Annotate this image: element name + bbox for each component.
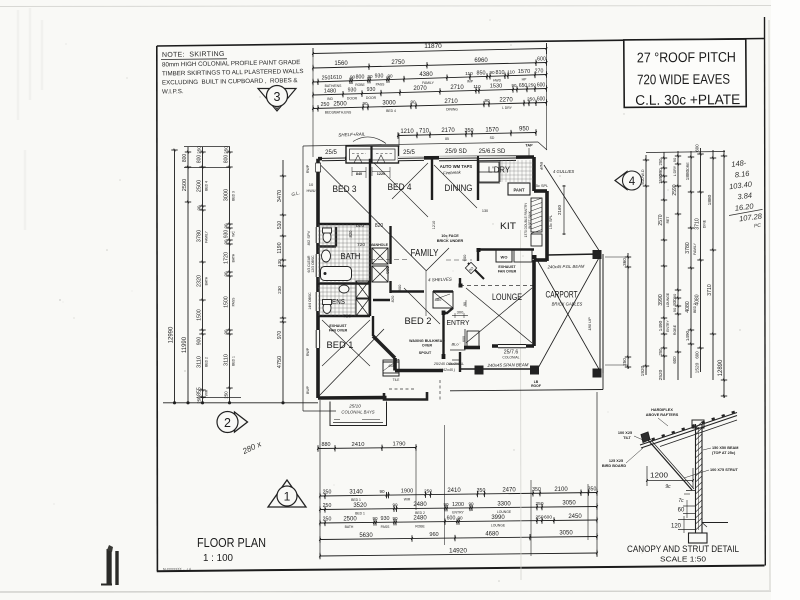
svg-text:250: 250 <box>658 348 663 356</box>
svg-text:3710: 3710 <box>707 284 713 296</box>
svg-text:90: 90 <box>223 223 228 228</box>
svg-text:ROOF: ROOF <box>531 384 541 388</box>
svg-text:90: 90 <box>410 100 416 105</box>
svg-text:CARPORT: CARPORT <box>546 290 578 300</box>
svg-text:BED 1: BED 1 <box>231 356 235 366</box>
svg-text:(TOP AT 25c): (TOP AT 25c) <box>712 451 736 455</box>
svg-text:350: 350 <box>465 128 474 134</box>
svg-text:2: 2 <box>224 416 231 430</box>
svg-text:3470: 3470 <box>277 190 283 202</box>
svg-text:OVER: OVER <box>422 344 433 348</box>
svg-text:800: 800 <box>182 154 188 163</box>
svg-text:11870: 11870 <box>424 43 442 50</box>
svg-text:810: 810 <box>496 70 505 76</box>
svg-text:90: 90 <box>672 307 677 312</box>
svg-text:1920: 1920 <box>640 365 646 376</box>
svg-text:7c: 7c <box>678 498 684 504</box>
svg-text:250: 250 <box>196 396 201 404</box>
svg-text:450: 450 <box>388 364 394 368</box>
svg-text:120: 120 <box>671 524 682 530</box>
svg-text:710: 710 <box>419 129 430 135</box>
svg-text:250: 250 <box>223 146 228 154</box>
svg-text:720 WIDE EAVES: 720 WIDE EAVES <box>637 71 730 88</box>
svg-text:840: 840 <box>356 172 362 176</box>
svg-text:FAMILY: FAMILY <box>204 230 208 243</box>
svg-text:510: 510 <box>277 221 283 230</box>
svg-text:350: 350 <box>588 486 597 492</box>
svg-text:PASS: PASS <box>376 82 386 86</box>
svg-text:600: 600 <box>447 515 456 521</box>
svg-text:930: 930 <box>381 516 390 522</box>
svg-text:90: 90 <box>223 329 228 334</box>
svg-text:3110: 3110 <box>223 354 229 366</box>
svg-text:1210: 1210 <box>432 221 436 229</box>
svg-text:3.84: 3.84 <box>737 191 753 202</box>
svg-text:12890: 12890 <box>718 359 724 376</box>
svg-text:2520: 2520 <box>658 369 664 380</box>
svg-text:SHELF+RAIL: SHELF+RAIL <box>338 132 366 138</box>
svg-text:600: 600 <box>462 336 466 342</box>
svg-text:1590: 1590 <box>658 174 663 184</box>
svg-text:2500: 2500 <box>196 180 202 192</box>
svg-text:930: 930 <box>367 87 376 93</box>
svg-text:350: 350 <box>532 487 541 493</box>
svg-text:148-: 148- <box>731 158 747 169</box>
svg-text:250: 250 <box>528 83 536 88</box>
svg-text:3: 3 <box>274 90 281 104</box>
svg-text:350: 350 <box>477 488 486 494</box>
svg-text:3780: 3780 <box>196 230 202 242</box>
svg-text:600: 600 <box>462 254 467 261</box>
svg-text:Firebreak: Firebreak <box>443 169 462 175</box>
svg-text:650: 650 <box>519 83 528 89</box>
svg-text:90: 90 <box>372 516 378 521</box>
svg-text:1490: 1490 <box>685 330 690 341</box>
svg-text:LOUNGE: LOUNGE <box>666 292 670 307</box>
svg-text:90: 90 <box>223 271 228 276</box>
svg-text:BATH: BATH <box>345 525 354 529</box>
svg-text:FAMILY: FAMILY <box>693 242 697 255</box>
svg-text:600: 600 <box>537 96 546 102</box>
svg-text:ENTRY: ENTRY <box>666 320 670 332</box>
svg-text:1570: 1570 <box>485 127 499 133</box>
svg-text:2750: 2750 <box>391 60 405 66</box>
svg-text:3990: 3990 <box>658 294 664 306</box>
svg-text:100 X25: 100 X25 <box>618 431 632 435</box>
svg-text:11990: 11990 <box>182 336 188 353</box>
svg-text:4380: 4380 <box>419 72 433 78</box>
svg-text:250: 250 <box>196 146 201 154</box>
svg-text:250: 250 <box>323 503 332 509</box>
svg-text:BATH: BATH <box>231 253 235 262</box>
svg-text:FAMILY: FAMILY <box>411 248 439 259</box>
svg-text:BIRD BOARD: BIRD BOARD <box>602 464 627 468</box>
svg-text:90: 90 <box>484 98 490 103</box>
svg-text:1570: 1570 <box>518 69 530 75</box>
svg-text:PC: PC <box>754 223 762 230</box>
svg-text:HP: HP <box>522 78 527 82</box>
svg-text:WC: WC <box>231 231 235 237</box>
svg-text:LOUNGE: LOUNGE <box>491 524 506 528</box>
svg-text:720: 720 <box>357 242 365 248</box>
svg-text:WIR: WIR <box>404 497 411 501</box>
svg-text:720: 720 <box>343 314 351 320</box>
svg-text:100 X75 STRUT: 100 X75 STRUT <box>710 468 739 472</box>
svg-text:2410: 2410 <box>352 442 365 448</box>
svg-text:12990: 12990 <box>168 326 174 343</box>
svg-text:250: 250 <box>323 490 332 496</box>
svg-text:1790: 1790 <box>393 441 406 447</box>
svg-text:MANHOLE: MANHOLE <box>370 243 389 247</box>
svg-text:L'DRY: L'DRY <box>488 166 511 175</box>
svg-text:1 : 100: 1 : 100 <box>203 553 233 564</box>
svg-text:1500: 1500 <box>196 309 202 321</box>
svg-text:14/4 OBSC: 14/4 OBSC <box>308 292 312 310</box>
svg-text:3000: 3000 <box>382 100 396 106</box>
svg-text:BED 2: BED 2 <box>415 511 425 515</box>
svg-text:25/10: 25/10 <box>348 404 361 409</box>
svg-text:820: 820 <box>356 223 365 229</box>
svg-text:3050: 3050 <box>559 531 573 537</box>
svg-text:1720: 1720 <box>223 252 229 264</box>
svg-text:2270: 2270 <box>499 97 513 103</box>
svg-text:BED 4: BED 4 <box>388 182 412 193</box>
svg-text:IMP: IMP <box>467 79 474 83</box>
svg-text:880: 880 <box>322 442 331 448</box>
svg-text:4: 4 <box>629 176 636 188</box>
svg-text:900: 900 <box>196 337 202 346</box>
svg-text:CANOPY AND STRUT DETAIL: CANOPY AND STRUT DETAIL <box>627 544 739 555</box>
svg-text:BED 1: BED 1 <box>327 340 354 351</box>
svg-text:1190: 1190 <box>277 242 283 253</box>
svg-text:10c FACE: 10c FACE <box>441 234 459 238</box>
svg-text:WAXING BULKHEAD: WAXING BULKHEAD <box>409 339 445 343</box>
svg-text:15c SPL: 15c SPL <box>534 184 548 188</box>
svg-text:90: 90 <box>392 502 398 507</box>
svg-text:RWP: RWP <box>306 347 310 356</box>
svg-text:EXHAUST: EXHAUST <box>498 265 516 269</box>
svg-text:BED 3: BED 3 <box>231 191 235 201</box>
svg-text:1530: 1530 <box>490 84 502 90</box>
svg-text:4080: 4080 <box>685 301 691 313</box>
svg-text:880: 880 <box>435 297 442 302</box>
svg-text:90: 90 <box>379 489 385 494</box>
svg-text:PANT: PANT <box>513 188 525 193</box>
svg-text:FLOOR PLAN: FLOOR PLAN <box>197 535 266 550</box>
svg-text:2710: 2710 <box>444 99 458 105</box>
svg-text:BED 1: BED 1 <box>351 498 361 502</box>
svg-text:2710: 2710 <box>450 85 464 91</box>
svg-text:12/3 OBSC: 12/3 OBSC <box>311 255 315 273</box>
svg-text:90: 90 <box>387 73 393 78</box>
svg-text:1560: 1560 <box>334 61 348 67</box>
svg-text:250: 250 <box>527 97 535 103</box>
svg-text:5630: 5630 <box>359 533 373 539</box>
svg-text:PASS: PASS <box>231 297 235 307</box>
svg-text:25/245 COLONIAL: 25/245 COLONIAL <box>433 362 464 366</box>
svg-text:1520: 1520 <box>694 362 700 373</box>
svg-text:1480: 1480 <box>324 88 336 94</box>
svg-text:DINING: DINING <box>446 107 458 111</box>
svg-text:WIR: WIR <box>204 389 208 396</box>
svg-text:2410: 2410 <box>447 488 461 494</box>
svg-text:( 162x45 ): ( 162x45 ) <box>439 368 455 372</box>
svg-text:KIT: KIT <box>500 221 517 231</box>
svg-text:RET: RET <box>666 217 670 224</box>
svg-text:BATH/ENS: BATH/ENS <box>325 84 342 88</box>
svg-text:250: 250 <box>223 391 228 399</box>
svg-text:90: 90 <box>457 515 463 520</box>
svg-text:130: 130 <box>277 259 282 267</box>
svg-text:HARDIFLEX: HARDIFLEX <box>651 408 673 412</box>
svg-text:BED 2: BED 2 <box>405 316 432 327</box>
svg-text:RWP: RWP <box>306 164 310 173</box>
svg-text:2500: 2500 <box>333 102 347 108</box>
svg-text:950: 950 <box>519 127 530 133</box>
svg-text:EXHAUST: EXHAUST <box>329 324 347 328</box>
svg-text:BED3/BATH,ENS: BED3/BATH,ENS <box>325 110 352 114</box>
svg-text:250: 250 <box>321 102 330 108</box>
svg-text:930: 930 <box>223 230 229 239</box>
svg-text:4 SHELVES: 4 SHELVES <box>428 277 452 283</box>
svg-text:ABOVE RAFTERS: ABOVE RAFTERS <box>646 413 679 417</box>
svg-text:BED 3: BED 3 <box>333 184 357 195</box>
svg-text:BWP: BWP <box>306 385 310 393</box>
svg-text:TILT: TILT <box>623 436 631 440</box>
svg-text:85: 85 <box>445 137 449 141</box>
svg-text:25/5: 25/5 <box>403 150 415 156</box>
svg-text:1500: 1500 <box>223 296 229 308</box>
svg-text:970: 970 <box>277 331 283 340</box>
svg-text:850: 850 <box>477 70 486 76</box>
svg-text:600: 600 <box>672 356 677 364</box>
svg-text:3780: 3780 <box>685 242 691 254</box>
svg-text:3000: 3000 <box>223 189 229 201</box>
svg-text:110: 110 <box>465 71 473 77</box>
svg-text:900: 900 <box>385 266 390 274</box>
svg-text:930: 930 <box>375 74 384 80</box>
svg-text:L DRY: L DRY <box>502 106 513 110</box>
svg-text:W.D: W.D <box>641 169 645 176</box>
svg-text:AUTO WM TAPS: AUTO WM TAPS <box>440 164 473 169</box>
svg-text:3140: 3140 <box>349 489 363 495</box>
svg-text:600: 600 <box>694 144 699 152</box>
svg-text:27 °ROOF PITCH: 27 °ROOF PITCH <box>637 49 736 66</box>
svg-text:2590: 2590 <box>672 184 678 195</box>
svg-text:2500: 2500 <box>343 516 357 522</box>
svg-text:180 UP: 180 UP <box>587 317 592 331</box>
svg-text:C.L. 30c +PLATE: C.L. 30c +PLATE <box>635 91 740 108</box>
svg-text:600: 600 <box>694 351 699 359</box>
svg-text:ENS: ENS <box>332 297 345 306</box>
svg-text:9c: 9c <box>665 484 671 490</box>
svg-text:COLONIAL BAYS: COLONIAL BAYS <box>341 410 374 415</box>
svg-text:3300: 3300 <box>497 501 511 507</box>
svg-text:960: 960 <box>429 532 438 538</box>
svg-text:1900: 1900 <box>401 489 413 495</box>
svg-text:130: 130 <box>482 209 488 213</box>
svg-text:90: 90 <box>672 157 677 162</box>
svg-text:300: 300 <box>457 310 464 315</box>
svg-text:800: 800 <box>196 155 202 164</box>
svg-text:BED 4: BED 4 <box>386 109 396 113</box>
svg-text:600: 600 <box>544 514 552 520</box>
svg-text:3050: 3050 <box>562 501 576 507</box>
svg-text:250: 250 <box>323 517 332 523</box>
svg-text:90: 90 <box>362 101 368 106</box>
svg-text:8/2 SPV: 8/2 SPV <box>306 230 311 245</box>
svg-text:10: 10 <box>309 182 314 187</box>
svg-text:250: 250 <box>535 501 543 507</box>
svg-text:ROBE: ROBE <box>415 524 425 528</box>
svg-text:240x45 P.GL BEAM: 240x45 P.GL BEAM <box>547 264 585 270</box>
svg-text:BATH: BATH <box>204 276 208 285</box>
svg-text:COLONIAL: COLONIAL <box>502 356 519 360</box>
svg-text:BED 1: BED 1 <box>355 512 365 516</box>
svg-text:DINE: DINE <box>702 219 706 228</box>
svg-text:1610: 1610 <box>330 75 342 81</box>
svg-text:NOTE: SKIRTING: NOTE: SKIRTING <box>162 51 225 59</box>
svg-text:DOOR: DOOR <box>366 96 377 100</box>
svg-text:110: 110 <box>507 69 515 75</box>
svg-text:RWP: RWP <box>539 162 543 171</box>
svg-text:90: 90 <box>489 70 495 75</box>
svg-text:FAMILY: FAMILY <box>422 81 435 85</box>
svg-text:800: 800 <box>397 284 402 291</box>
svg-text:250: 250 <box>424 488 432 494</box>
svg-text:930: 930 <box>348 88 357 94</box>
svg-text:90: 90 <box>512 83 517 88</box>
svg-text:820: 820 <box>348 230 353 238</box>
svg-text:BLo: BLo <box>451 342 459 347</box>
svg-text:TILE: TILE <box>393 378 400 382</box>
svg-text:4680: 4680 <box>485 531 499 537</box>
svg-text:2480: 2480 <box>413 516 427 522</box>
svg-text:90: 90 <box>672 293 677 298</box>
svg-text:SD: SD <box>490 136 495 140</box>
svg-text:DOOR: DOOR <box>347 96 358 100</box>
svg-text:HWU: HWU <box>306 189 315 193</box>
svg-text:2470: 2470 <box>502 487 516 493</box>
svg-text:60: 60 <box>678 508 685 514</box>
svg-text:SCALE 1:50: SCALE 1:50 <box>660 555 706 564</box>
svg-text:4750: 4750 <box>277 356 283 368</box>
svg-text:90: 90 <box>468 502 474 507</box>
svg-text:90: 90 <box>350 75 356 80</box>
svg-text:2570: 2570 <box>658 214 664 225</box>
svg-text:WO: WO <box>501 255 508 260</box>
svg-text:3520: 3520 <box>353 503 367 509</box>
svg-text:1200: 1200 <box>650 473 668 480</box>
svg-text:240x45 SPAN BEAM: 240x45 SPAN BEAM <box>486 362 528 368</box>
svg-text:3990: 3990 <box>491 515 505 521</box>
svg-text:ROBE: ROBE <box>355 83 365 87</box>
svg-text:250: 250 <box>658 158 663 166</box>
svg-text:90: 90 <box>196 205 201 210</box>
svg-text:DRE: DRE <box>686 162 690 170</box>
svg-text:4 GULLIES: 4 GULLIES <box>553 169 574 174</box>
svg-text:820: 820 <box>375 223 384 229</box>
svg-text:150 X50 BEAM: 150 X50 BEAM <box>712 446 738 450</box>
svg-text:25/9 SD: 25/9 SD <box>445 149 467 155</box>
svg-text:ENTRY: ENTRY <box>452 511 464 515</box>
svg-text:510: 510 <box>640 177 645 185</box>
svg-text:2450: 2450 <box>568 514 582 520</box>
svg-text:TAP: TAP <box>525 144 533 148</box>
svg-text:BED 2: BED 2 <box>204 357 208 367</box>
svg-text:2100: 2100 <box>554 487 568 493</box>
svg-text:6960: 6960 <box>474 58 488 64</box>
svg-text:90: 90 <box>367 74 373 79</box>
svg-text:BRICK GABLES: BRICK GABLES <box>552 302 583 307</box>
svg-text:IND: IND <box>327 97 333 101</box>
svg-text:90: 90 <box>223 239 228 244</box>
svg-text:8.16: 8.16 <box>734 169 750 180</box>
svg-text:ENTRY: ENTRY <box>447 318 470 327</box>
svg-text:LOUNGE: LOUNGE <box>492 292 522 302</box>
svg-text:1: 1 <box>284 490 291 504</box>
svg-text:SPOUT: SPOUT <box>419 351 432 355</box>
svg-text:W.I.P.S.: W.I.P.S. <box>162 88 184 95</box>
svg-text:2480: 2480 <box>413 502 427 508</box>
svg-text:LOUNGE: LOUNGE <box>497 510 512 514</box>
svg-text:14920: 14920 <box>449 547 467 554</box>
svg-text:PASS: PASS <box>381 525 391 529</box>
svg-text:360: 360 <box>622 258 627 266</box>
svg-text:2320: 2320 <box>196 275 202 287</box>
svg-text:600: 600 <box>537 82 546 88</box>
svg-text:800: 800 <box>356 74 365 80</box>
svg-text:90: 90 <box>463 302 467 306</box>
svg-text:1200: 1200 <box>452 502 464 508</box>
svg-text:250: 250 <box>322 75 331 81</box>
svg-text:2160: 2160 <box>557 204 562 215</box>
svg-text:FAN OVER: FAN OVER <box>329 329 348 333</box>
svg-text:1880: 1880 <box>707 194 713 205</box>
svg-text:DINING: DINING <box>445 183 473 193</box>
svg-text:270: 270 <box>535 69 544 75</box>
svg-text:250: 250 <box>535 514 543 520</box>
svg-text:930: 930 <box>672 298 677 306</box>
svg-text:1210: 1210 <box>400 129 414 135</box>
svg-text:25/6.5 SD: 25/6.5 SD <box>479 149 506 155</box>
svg-text:ROBE: ROBE <box>673 324 677 335</box>
svg-text:BED 4: BED 4 <box>204 181 208 191</box>
svg-text:125 X25: 125 X25 <box>609 459 623 463</box>
svg-text:1490: 1490 <box>658 320 664 331</box>
svg-text:15c SPL: 15c SPL <box>549 215 553 229</box>
svg-text:M-XXXXXXX - + 4: M-XXXXXXX - + 4 <box>163 567 191 571</box>
svg-text:25/5: 25/5 <box>325 150 337 156</box>
svg-text:BRICK UNDER: BRICK UNDER <box>437 239 464 243</box>
svg-text:2070: 2070 <box>413 86 427 92</box>
svg-text:800: 800 <box>223 155 229 164</box>
svg-text:3110: 3110 <box>196 356 202 368</box>
svg-text:600: 600 <box>537 56 546 62</box>
svg-text:3710: 3710 <box>694 218 700 230</box>
svg-text:FAN OVER: FAN OVER <box>498 270 517 274</box>
svg-text:820: 820 <box>390 295 395 302</box>
svg-text:4080: 4080 <box>694 294 700 305</box>
svg-text:1880: 1880 <box>685 169 691 180</box>
svg-text:90: 90 <box>392 516 398 521</box>
svg-text:2500: 2500 <box>182 179 188 191</box>
svg-text:2170: 2170 <box>441 128 455 134</box>
svg-text:L DRY: L DRY <box>673 165 677 176</box>
svg-text:BATH: BATH <box>341 252 361 261</box>
svg-text:110: 110 <box>473 84 481 89</box>
svg-text:250: 250 <box>622 358 627 366</box>
